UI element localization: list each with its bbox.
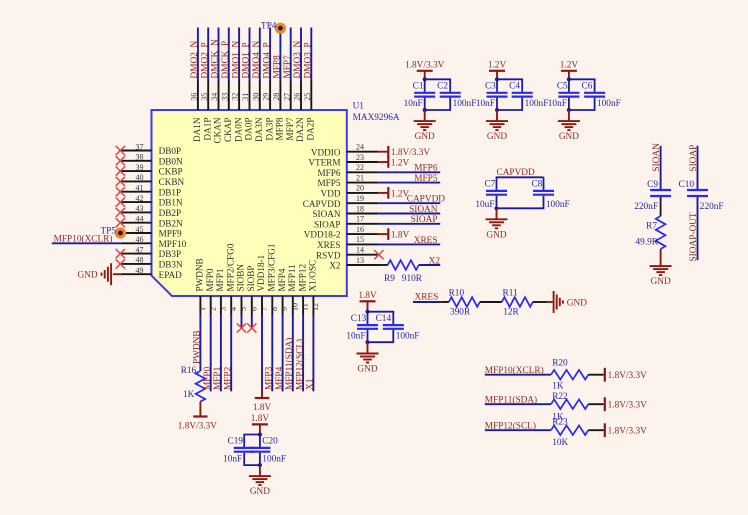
svg-text:1.8V: 1.8V	[251, 414, 270, 424]
svg-text:13: 13	[356, 256, 364, 265]
svg-text:DMCK_P: DMCK_P	[221, 41, 231, 79]
svg-text:1.8V/3.3V: 1.8V/3.3V	[405, 61, 445, 71]
svg-text:C7: C7	[484, 180, 495, 190]
svg-text:49: 49	[136, 266, 144, 275]
svg-text:10K: 10K	[552, 438, 568, 448]
svg-text:C8: C8	[531, 180, 542, 190]
svg-text:100nF: 100nF	[597, 99, 621, 109]
svg-text:MFP4: MFP4	[275, 366, 285, 390]
svg-text:R9: R9	[384, 274, 395, 284]
svg-text:R11: R11	[503, 288, 519, 298]
svg-text:DA1P: DA1P	[202, 118, 212, 141]
svg-text:1.2V: 1.2V	[488, 61, 507, 71]
svg-text:U1: U1	[353, 102, 365, 112]
svg-text:C3: C3	[485, 82, 496, 92]
svg-text:C6: C6	[582, 82, 593, 92]
svg-text:DB3N: DB3N	[159, 260, 183, 270]
svg-text:DA3N: DA3N	[254, 117, 264, 142]
svg-text:MPF10: MPF10	[159, 239, 187, 249]
svg-text:11: 11	[301, 303, 310, 311]
svg-text:1.8V/3.3V: 1.8V/3.3V	[608, 426, 648, 436]
svg-text:DA0N: DA0N	[233, 117, 243, 142]
svg-text:CAPVDD: CAPVDD	[303, 199, 341, 209]
svg-text:DB1N: DB1N	[159, 198, 183, 208]
svg-text:22: 22	[356, 163, 364, 172]
svg-text:XRES: XRES	[317, 240, 341, 250]
svg-text:10nF: 10nF	[346, 331, 365, 341]
svg-text:MFP12(SCL): MFP12(SCL)	[294, 339, 305, 390]
svg-text:MFP1: MFP1	[213, 366, 223, 390]
svg-text:GND: GND	[250, 487, 270, 497]
svg-text:C5: C5	[557, 82, 568, 92]
svg-text:MFP11: MFP11	[287, 264, 297, 292]
svg-text:MFP1: MFP1	[215, 268, 225, 291]
svg-text:1.8V/3.3V: 1.8V/3.3V	[178, 421, 218, 431]
svg-text:PWDNB: PWDNB	[195, 258, 205, 291]
svg-text:17: 17	[356, 215, 364, 224]
svg-text:C1: C1	[413, 82, 424, 92]
svg-text:DA2P: DA2P	[306, 118, 316, 141]
svg-text:DA2N: DA2N	[295, 117, 305, 142]
svg-text:DB3P: DB3P	[159, 249, 181, 259]
svg-text:MFP5: MFP5	[318, 178, 341, 188]
svg-text:X2: X2	[329, 261, 341, 271]
svg-text:14: 14	[356, 246, 364, 255]
svg-text:MFP7: MFP7	[283, 55, 293, 79]
svg-text:49.9R: 49.9R	[636, 238, 659, 248]
svg-text:1.8V: 1.8V	[391, 231, 410, 241]
svg-text:C2: C2	[437, 82, 448, 92]
svg-text:DMO4_N: DMO4_N	[252, 41, 262, 79]
svg-text:X1: X1	[306, 378, 316, 390]
svg-text:100nF: 100nF	[546, 200, 570, 210]
svg-text:10uF: 10uF	[475, 200, 494, 210]
svg-text:MFP4: MFP4	[277, 268, 287, 291]
svg-text:GND: GND	[651, 277, 671, 287]
svg-text:42: 42	[136, 194, 144, 203]
svg-text:XRES: XRES	[414, 236, 438, 246]
svg-text:15: 15	[356, 235, 364, 244]
svg-text:1.2V: 1.2V	[391, 158, 410, 168]
svg-text:12: 12	[311, 303, 320, 311]
svg-text:32: 32	[231, 93, 240, 101]
svg-text:GND: GND	[357, 365, 377, 375]
svg-text:DMO2_P: DMO2_P	[200, 42, 210, 78]
svg-text:6: 6	[249, 307, 258, 311]
svg-text:X1/OSC: X1/OSC	[308, 260, 318, 292]
svg-text:DB1P: DB1P	[159, 187, 181, 197]
svg-text:29: 29	[262, 93, 271, 101]
svg-text:41: 41	[136, 184, 144, 193]
svg-text:C14: C14	[376, 314, 392, 324]
svg-text:MFP12: MFP12	[297, 264, 307, 292]
svg-text:VDD: VDD	[321, 189, 341, 199]
svg-text:DMO1_P: DMO1_P	[242, 42, 252, 78]
svg-text:16: 16	[356, 225, 364, 234]
svg-text:C4: C4	[509, 82, 520, 92]
svg-text:DB0N: DB0N	[159, 156, 183, 166]
svg-text:TP4: TP4	[261, 21, 277, 31]
svg-text:MFP0: MFP0	[203, 366, 213, 390]
svg-text:220nF: 220nF	[634, 202, 658, 212]
svg-text:VDD18-2: VDD18-2	[304, 230, 341, 240]
svg-text:8: 8	[270, 307, 279, 311]
svg-text:38: 38	[136, 153, 144, 162]
svg-text:33: 33	[220, 93, 229, 101]
svg-text:MFP8: MFP8	[273, 55, 283, 79]
svg-text:MFP2/CFG0: MFP2/CFG0	[225, 243, 235, 291]
svg-text:19: 19	[356, 194, 364, 203]
svg-text:MFP6: MFP6	[414, 164, 438, 174]
svg-text:24: 24	[356, 143, 364, 152]
svg-text:10nF: 10nF	[223, 454, 242, 464]
svg-text:40: 40	[136, 173, 144, 182]
svg-text:RSVD: RSVD	[316, 250, 341, 260]
svg-text:2: 2	[208, 307, 217, 311]
svg-text:SIOAN: SIOAN	[409, 205, 438, 215]
svg-text:100nF: 100nF	[525, 99, 549, 109]
svg-text:10nF: 10nF	[404, 99, 423, 109]
svg-text:46: 46	[136, 235, 144, 244]
svg-text:35: 35	[200, 93, 209, 101]
svg-text:GND: GND	[567, 298, 587, 308]
svg-text:27: 27	[282, 93, 291, 101]
svg-text:MFP0: MFP0	[205, 268, 215, 291]
svg-text:VTERM: VTERM	[308, 158, 340, 168]
svg-text:VDDIO: VDDIO	[311, 147, 341, 157]
svg-text:XRES: XRES	[415, 293, 439, 303]
svg-text:1.8V/3.3V: 1.8V/3.3V	[608, 400, 648, 410]
svg-text:1K: 1K	[552, 381, 564, 391]
svg-text:R22: R22	[552, 392, 568, 402]
svg-text:28: 28	[272, 93, 281, 101]
svg-text:12R: 12R	[503, 307, 519, 317]
svg-text:CAPVDD: CAPVDD	[407, 195, 446, 205]
svg-text:C10: C10	[679, 180, 695, 190]
svg-text:43: 43	[136, 204, 144, 213]
svg-text:CKAN: CKAN	[213, 117, 223, 143]
svg-text:100nF: 100nF	[262, 454, 286, 464]
svg-text:100nF: 100nF	[396, 331, 420, 341]
svg-text:CKBN: CKBN	[159, 177, 185, 187]
svg-text:18: 18	[356, 204, 364, 213]
svg-text:3: 3	[219, 307, 228, 311]
svg-text:VDD18-1: VDD18-1	[256, 254, 266, 291]
svg-text:4: 4	[229, 307, 238, 311]
svg-text:GND: GND	[487, 132, 507, 142]
svg-text:1: 1	[198, 307, 207, 311]
svg-text:100nF: 100nF	[453, 99, 477, 109]
svg-text:31: 31	[241, 93, 250, 101]
svg-text:MFP6: MFP6	[318, 168, 341, 178]
svg-text:X2: X2	[429, 256, 441, 266]
svg-text:C13: C13	[351, 314, 367, 324]
svg-text:DMO2_N: DMO2_N	[190, 41, 200, 79]
svg-text:GND: GND	[559, 132, 579, 142]
svg-text:R16: R16	[181, 366, 197, 376]
svg-text:910R: 910R	[402, 274, 423, 284]
svg-text:1.8V/3.3V: 1.8V/3.3V	[608, 371, 648, 381]
svg-text:R7: R7	[646, 222, 657, 232]
svg-text:390R: 390R	[450, 307, 471, 317]
svg-text:25: 25	[303, 93, 312, 101]
svg-text:10nF: 10nF	[548, 99, 567, 109]
svg-text:DMO1_N: DMO1_N	[231, 41, 241, 79]
svg-text:SIOAP: SIOAP	[411, 215, 438, 225]
svg-text:MFP8: MFP8	[275, 117, 285, 140]
svg-text:DB2N: DB2N	[159, 218, 183, 228]
svg-text:39: 39	[136, 163, 144, 172]
svg-text:SIOAN: SIOAN	[312, 209, 340, 219]
svg-text:DA3P: DA3P	[264, 118, 274, 141]
svg-text:GND: GND	[415, 132, 435, 142]
svg-text:26: 26	[293, 93, 302, 101]
svg-text:SIOAP: SIOAP	[314, 219, 341, 229]
svg-text:DB0P: DB0P	[159, 146, 181, 156]
svg-text:CAPVDD: CAPVDD	[497, 168, 536, 178]
svg-text:21: 21	[356, 173, 364, 182]
svg-text:48: 48	[136, 256, 144, 265]
svg-text:SIOAN: SIOAN	[652, 143, 662, 172]
svg-text:C20: C20	[262, 437, 278, 447]
svg-text:MFP7: MFP7	[285, 117, 295, 140]
svg-text:MPF9: MPF9	[159, 229, 182, 239]
svg-text:47: 47	[136, 245, 144, 254]
svg-text:MFP10(XCLR): MFP10(XCLR)	[54, 234, 113, 245]
svg-text:10nF: 10nF	[476, 99, 495, 109]
svg-text:GND: GND	[486, 230, 506, 240]
svg-text:SIOBP: SIOBP	[246, 265, 256, 291]
svg-text:10: 10	[290, 303, 299, 311]
svg-text:45: 45	[136, 225, 144, 234]
svg-text:C19: C19	[228, 437, 244, 447]
svg-text:DMO3_P: DMO3_P	[304, 42, 314, 78]
svg-text:DB2P: DB2P	[159, 208, 181, 218]
svg-text:SIOAP: SIOAP	[689, 145, 699, 172]
svg-text:DMO3_N: DMO3_N	[293, 41, 303, 79]
svg-text:1.8V/3.3V: 1.8V/3.3V	[391, 148, 431, 158]
svg-text:9: 9	[280, 307, 289, 311]
svg-text:1.8V: 1.8V	[358, 291, 377, 301]
svg-text:EPAD: EPAD	[159, 270, 183, 280]
svg-text:37: 37	[136, 142, 144, 151]
svg-text:PWDNB: PWDNB	[193, 330, 203, 364]
svg-text:220nF: 220nF	[700, 202, 724, 212]
svg-text:DA1N: DA1N	[192, 117, 202, 142]
svg-text:CKBP: CKBP	[159, 167, 183, 177]
svg-text:MFP2: MFP2	[223, 366, 233, 390]
svg-text:MFP3: MFP3	[265, 366, 275, 390]
svg-text:34: 34	[210, 93, 219, 101]
svg-text:5: 5	[239, 307, 248, 311]
svg-text:MFP3/CFG1: MFP3/CFG1	[267, 243, 277, 291]
svg-text:23: 23	[356, 153, 364, 162]
svg-text:1.2V: 1.2V	[560, 61, 579, 71]
svg-text:36: 36	[190, 93, 199, 101]
svg-text:DA0P: DA0P	[244, 118, 254, 141]
svg-text:7: 7	[260, 307, 269, 311]
svg-text:SIOBN: SIOBN	[236, 264, 246, 292]
svg-text:SIOAP-OUT: SIOAP-OUT	[689, 212, 699, 261]
svg-text:30: 30	[251, 93, 260, 101]
svg-text:MAX9296A: MAX9296A	[353, 113, 400, 123]
svg-text:1.8V: 1.8V	[253, 403, 272, 413]
svg-text:R20: R20	[552, 358, 568, 368]
svg-text:DMO4_P: DMO4_P	[262, 42, 272, 78]
svg-text:R23: R23	[552, 417, 568, 427]
svg-text:44: 44	[136, 215, 144, 224]
svg-text:MFP5: MFP5	[414, 174, 438, 184]
svg-text:C9: C9	[647, 180, 658, 190]
svg-text:CKAP: CKAP	[223, 118, 233, 143]
svg-text:1K: 1K	[183, 390, 195, 400]
svg-text:MFP11(SDA): MFP11(SDA)	[284, 338, 295, 390]
svg-text:20: 20	[356, 184, 364, 193]
svg-text:DMCK_N: DMCK_N	[211, 39, 221, 79]
svg-text:R10: R10	[449, 288, 465, 298]
svg-text:GND: GND	[77, 271, 97, 281]
